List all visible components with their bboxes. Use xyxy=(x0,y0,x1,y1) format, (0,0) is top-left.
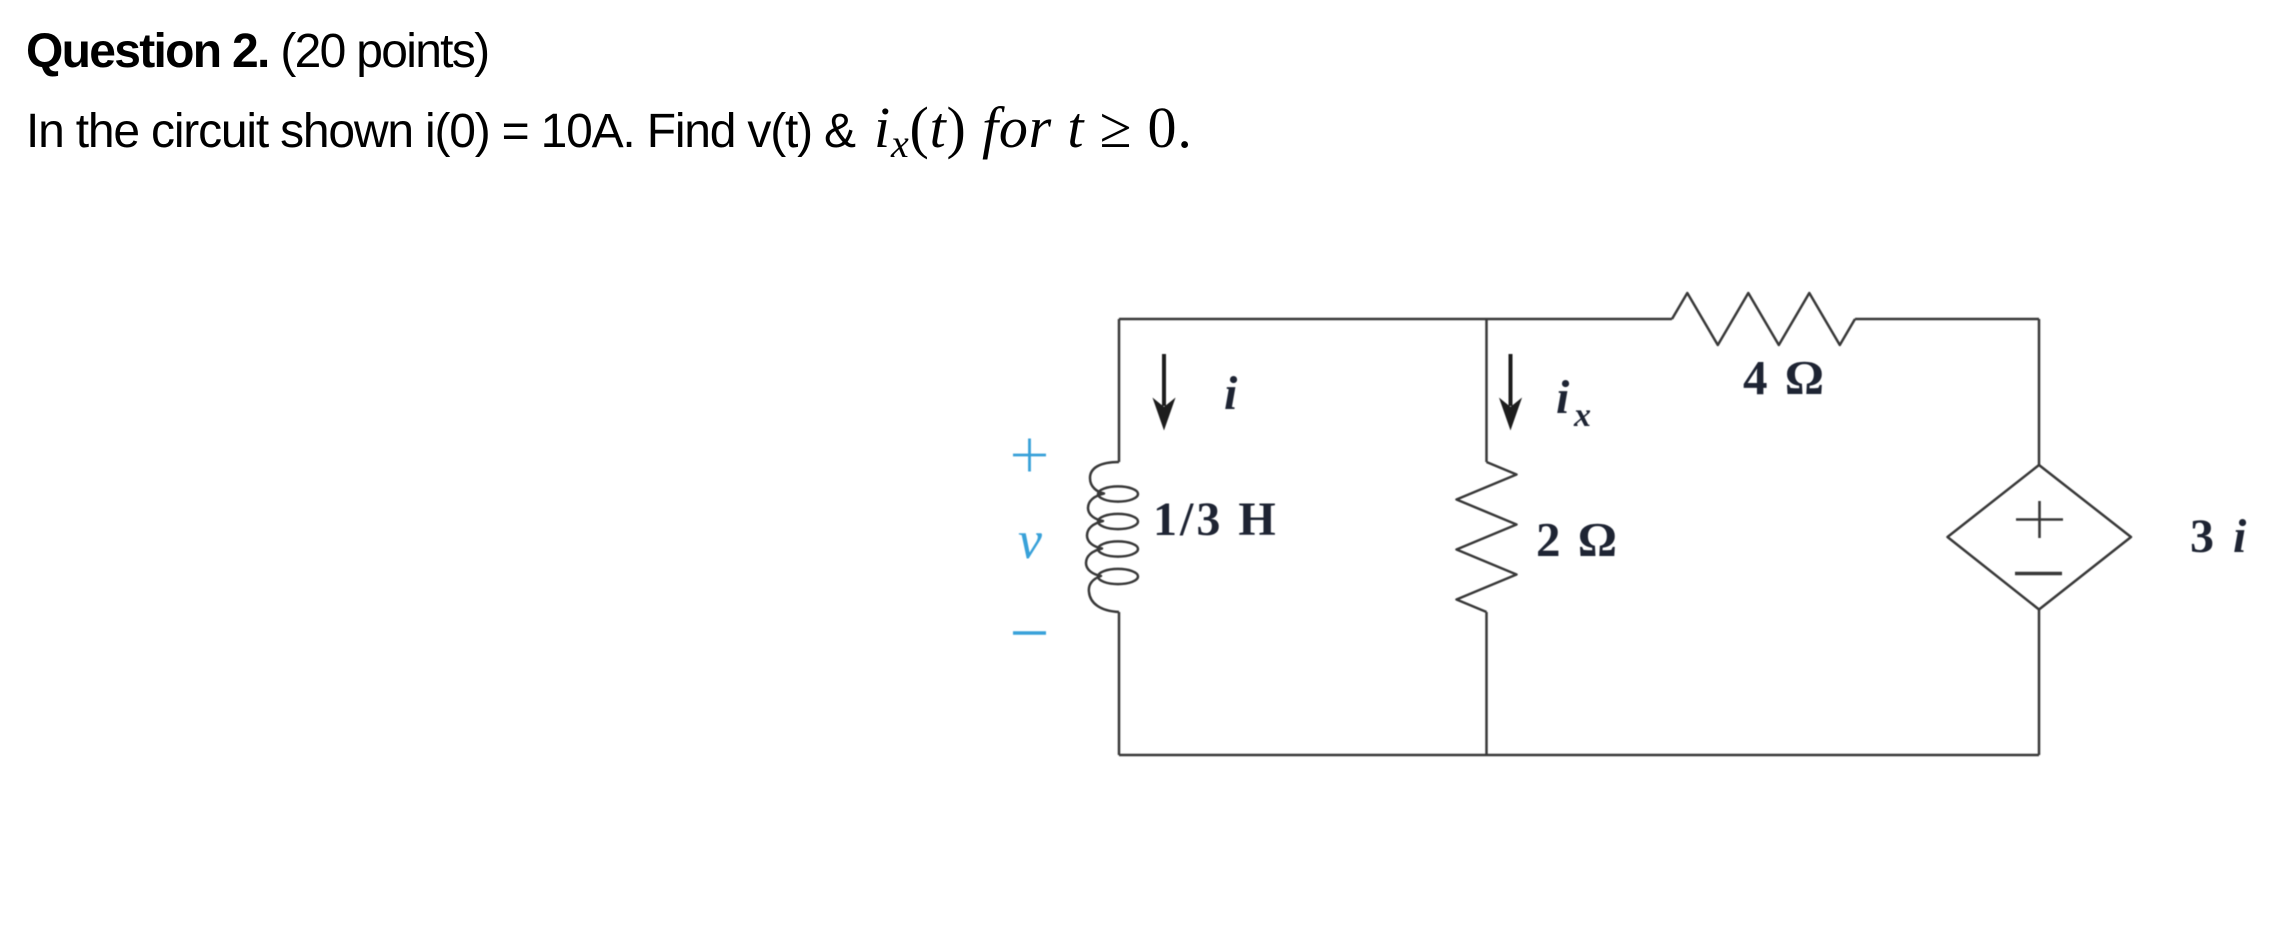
resistor R1 4 ohm (zigzag) xyxy=(1672,293,1855,345)
resistor R2 2 ohm (zigzag) xyxy=(1457,462,1517,612)
current arrow ix xyxy=(1500,354,1521,429)
svg-text:i: i xyxy=(2233,510,2247,563)
svg-text:i: i xyxy=(1224,367,1238,420)
label ix (current name) xyxy=(1556,371,1591,434)
svg-text:v: v xyxy=(1018,510,1042,570)
dependent source U1 (diamond, controlled voltage source 3i) xyxy=(1948,465,2132,610)
plus sign inside source xyxy=(2016,501,2063,538)
current arrow i xyxy=(1154,354,1175,429)
wire left branch bottom (inductor to bottom-left corner) xyxy=(1118,612,1121,755)
wire right branch bottom (source to bottom-right corner) xyxy=(2038,610,2041,756)
problem statement line xyxy=(26,94,1193,167)
minus sign inside source xyxy=(2015,572,2062,576)
title line xyxy=(26,24,488,79)
svg-text:x: x xyxy=(1573,397,1591,434)
wire node B to left terminal of 4-ohm resistor xyxy=(1487,318,1673,321)
svg-text:3: 3 xyxy=(2190,510,2214,563)
wire middle branch top (node B down to 2-ohm) xyxy=(1485,319,1488,462)
wire top node A (top-left) to node B (top of 2-ohm branch) xyxy=(1119,318,1487,321)
voltage minus sign (blue) xyxy=(1013,631,1046,635)
wire left branch top (node A down to inductor) xyxy=(1118,319,1121,462)
wire right branch top (top-right corner down to source) xyxy=(2038,319,2041,465)
svg-text:i: i xyxy=(1556,371,1570,424)
wire middle branch bottom (2-ohm to bottom node) xyxy=(1485,612,1488,755)
inductor L1 1/3 H (coil) xyxy=(1086,462,1138,612)
svg-text:2 Ω: 2 Ω xyxy=(1536,512,1620,567)
value label 3i (source gain) xyxy=(2190,510,2247,563)
svg-text:1/3 H: 1/3 H xyxy=(1153,493,1279,546)
wire bottom rail xyxy=(1119,754,2039,757)
svg-text:4 Ω: 4 Ω xyxy=(1743,350,1827,405)
wire 4-ohm right terminal to top-right corner xyxy=(1855,318,2039,321)
voltage plus sign (blue) xyxy=(1013,439,1046,472)
